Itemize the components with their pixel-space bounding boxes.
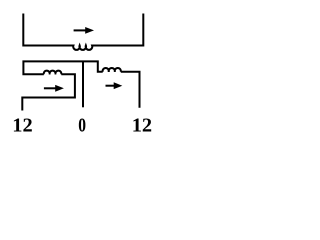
svg-text:12: 12 (132, 114, 152, 136)
svg-text:0: 0 (78, 113, 86, 136)
svg-text:12: 12 (12, 114, 32, 136)
